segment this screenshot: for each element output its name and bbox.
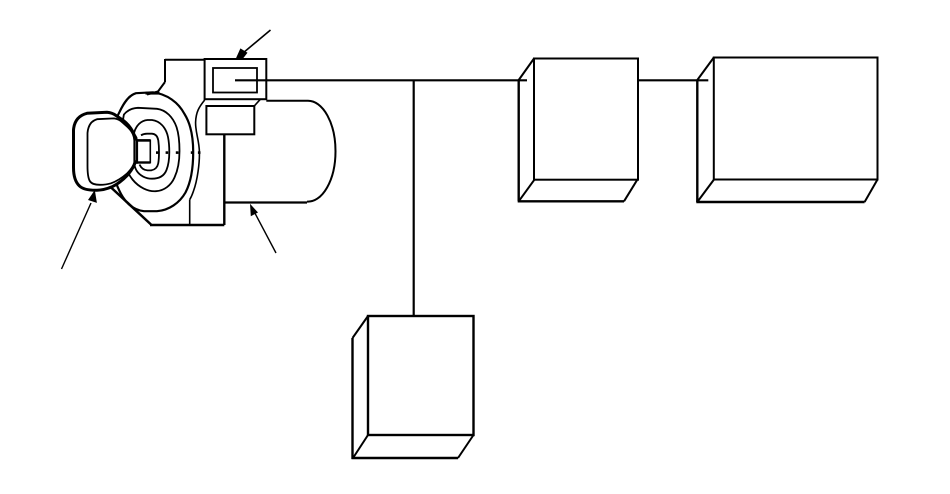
hub housing arc (140, 134, 160, 171)
wire: box U2 to box U3 (638, 79, 708, 81)
box U2 bottom-right depth edge (624, 180, 637, 202)
hub rect (137, 140, 151, 162)
cylinder bottom edge (224, 201, 307, 203)
box U3 back bottom edge (696, 201, 864, 203)
body top edge (165, 59, 205, 61)
box U3 back-left edge (696, 80, 698, 202)
ring R1 (outer ring) (112, 92, 194, 211)
hub rect thick bottom edge (136, 161, 151, 163)
box U4 back bottom edge (352, 457, 459, 459)
camera body outline (110, 59, 224, 225)
body bottom edge (150, 224, 224, 226)
hub rect thick left edge (135, 139, 138, 164)
ring R1 top tick (146, 92, 160, 95)
box U4 (bottom box) (352, 316, 474, 459)
box U3 front face (714, 58, 878, 180)
hub rect thick top edge (136, 139, 151, 142)
box U3 top-left depth edge (697, 58, 714, 81)
box U2 back-left edge (518, 80, 520, 201)
box U2 bottom-left depth edge (519, 180, 535, 202)
box U4 bottom-right depth edge (458, 435, 474, 458)
ring R0 rear arc (190, 100, 205, 200)
cylinder top edge (266, 100, 308, 102)
accessory shoe rect (206, 106, 254, 134)
ring midline tick dots (156, 151, 201, 154)
box U3 bottom-left depth edge (697, 180, 714, 203)
arrow A3 (to cylinder bottom) (250, 204, 276, 253)
body plate corner vertical (189, 200, 191, 225)
box U4 front face (368, 316, 474, 435)
ring R2 (122, 108, 179, 191)
body upper-left slant (147, 82, 165, 95)
box U3 bottom-right depth edge (865, 180, 878, 203)
box U2 back bottom edge (518, 200, 624, 202)
body lower-left slant (110, 187, 151, 225)
ring R3 (133, 120, 169, 179)
arrow A2 (to eyecup) (62, 190, 97, 269)
lens cylinder (224, 101, 335, 203)
eyecup inner (88, 118, 135, 184)
eyecup outer (74, 112, 137, 190)
viewfinder window inner rect (213, 68, 257, 93)
wire: junction drop to box U4 (413, 80, 415, 316)
shoe to housing diagonal (254, 99, 260, 106)
box U4 bottom-left depth edge (353, 435, 368, 458)
box U2 top-left depth edge (519, 59, 534, 81)
body right edge (223, 134, 225, 225)
viewfinder housing (205, 59, 267, 99)
box U2 (middle box) (518, 59, 638, 202)
box U4 back-left edge (351, 338, 353, 459)
body left edge (164, 59, 166, 82)
box U3 (right box) (696, 58, 877, 203)
wire: camera to junction to box U2 (235, 79, 527, 81)
box U2 front face (534, 59, 638, 180)
arrow A1 (to viewfinder housing) (235, 30, 270, 60)
hub housing fill mask (135, 134, 159, 171)
box U4 top-left depth edge (353, 316, 369, 338)
cylinder rounded right end (307, 101, 336, 202)
